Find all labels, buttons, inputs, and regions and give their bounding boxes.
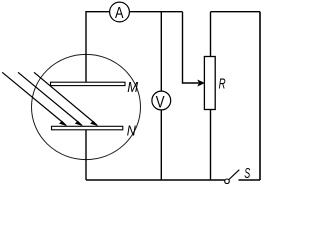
plate M: [51, 82, 126, 85]
wire: [210, 110, 212, 181]
svg-text:R: R: [219, 76, 226, 93]
wire: [160, 12, 162, 92]
wire: [160, 110, 162, 180]
ammeter A1: [110, 2, 130, 22]
light ray 1: [2, 72, 66, 125]
light ray 3: [34, 72, 98, 125]
svg-text:V: V: [156, 93, 165, 111]
wiper arrowhead: [198, 80, 204, 86]
wire: [210, 12, 212, 57]
wire: [183, 12, 199, 83]
light ray 2: [18, 72, 82, 125]
svg-text:N: N: [127, 122, 136, 139]
wire: [211, 11, 261, 13]
wire: [86, 12, 110, 83]
wire: [85, 130, 87, 180]
svg-text:M: M: [127, 79, 138, 96]
wire: [86, 179, 225, 181]
resistor R: [204, 57, 215, 110]
wire: [259, 12, 261, 180]
wire: [239, 179, 261, 181]
voltmeter V1: [152, 91, 171, 111]
svg-text:A: A: [115, 5, 124, 22]
switch hinge: [225, 179, 230, 184]
switch blade S: [229, 170, 240, 180]
photocell tube T1: [32, 54, 141, 159]
plate N: [52, 126, 123, 130]
wire: [129, 11, 182, 13]
